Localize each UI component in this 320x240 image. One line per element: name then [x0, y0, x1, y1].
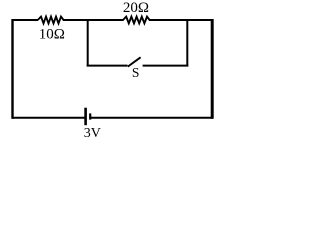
wire top-left segment: [12, 19, 39, 21]
label 10Ω: [39, 27, 65, 43]
wire bottom-right segment: [91, 117, 213, 119]
switch S blade: [128, 57, 141, 66]
wire left side: [11, 19, 13, 119]
wire switch-right segment: [143, 65, 189, 67]
wire top-middle segment: [63, 19, 124, 21]
wire parallel-branch left vertical: [87, 20, 89, 67]
resistor 20Ω: [123, 17, 150, 24]
battery 3V: [86, 108, 91, 126]
label S: [132, 65, 140, 80]
svg-text:20Ω: 20Ω: [123, 0, 149, 16]
label 3V: [84, 126, 101, 141]
wire top-right segment: [149, 19, 213, 21]
resistor 10Ω: [38, 17, 64, 24]
wire switch-left segment: [87, 65, 128, 67]
label 20Ω: [123, 0, 149, 16]
svg-text:3V: 3V: [84, 126, 101, 141]
svg-text:S: S: [132, 65, 140, 80]
wire parallel-branch right vertical: [186, 20, 188, 67]
svg-text:10Ω: 10Ω: [39, 27, 65, 43]
wire bottom-left segment: [12, 117, 85, 119]
wire right side: [211, 19, 214, 119]
